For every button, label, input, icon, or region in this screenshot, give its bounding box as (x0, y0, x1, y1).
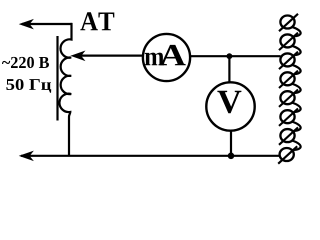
spiral loop 8 (278, 146, 297, 163)
voltmeter V (206, 82, 254, 130)
wire: milliammeter to heater (190, 55, 281, 57)
spiral loop 2 (279, 33, 301, 56)
wire bottom rail (21, 155, 280, 157)
arrowhead top-left mains (20, 20, 32, 28)
junction node top (227, 53, 233, 59)
wire: junction down to voltmeter (228, 56, 230, 82)
milliammeter body (143, 34, 190, 81)
wire: voltmeter to bottom rail (230, 132, 232, 156)
heater spiral (278, 14, 300, 164)
spiral loop 3 (279, 52, 301, 74)
spiral loop 1 (279, 14, 301, 37)
spiral loop 7 (279, 127, 301, 149)
arrowhead bottom-left mains (20, 152, 32, 160)
transformer core (56, 36, 58, 121)
spiral loop 6 (279, 109, 301, 132)
arrowhead transformer tap (72, 52, 84, 61)
label A (160, 45, 186, 65)
label m (145, 53, 164, 66)
label V (217, 91, 241, 113)
spiral loop 5 (279, 90, 301, 113)
voltmeter body (206, 82, 254, 130)
spiral loop 4 (279, 71, 301, 94)
wire: tap to milliammeter (80, 54, 143, 56)
transformer winding AT with entry and exit leads (59, 23, 71, 156)
milliammeter mA (143, 34, 190, 81)
wire top mains lead (22, 23, 72, 25)
label AT (80, 12, 114, 30)
label ~220 V (2, 57, 49, 68)
label 50 Hz (6, 79, 51, 93)
junction node bottom (228, 153, 235, 160)
